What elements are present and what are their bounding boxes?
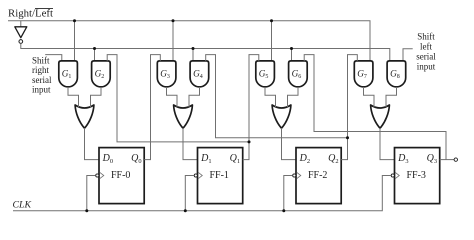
flip-flop FF-1 bbox=[194, 148, 243, 204]
wire CLK line bbox=[13, 176, 391, 211]
flip-flop FF-3 bbox=[391, 148, 440, 204]
or gate stage 0 bbox=[75, 105, 94, 128]
or gate stage 2 bbox=[272, 105, 291, 128]
wire G8 output to OR bbox=[386, 87, 397, 107]
svg-text:Right/Left: Right/Left bbox=[8, 7, 53, 19]
svg-text:FF-1: FF-1 bbox=[209, 170, 228, 181]
svg-text:FF-2: FF-2 bbox=[308, 170, 327, 181]
wire OR output to D0 bbox=[85, 128, 100, 160]
wire inverted drop to G4 bbox=[192, 49, 194, 61]
wire clock riser FF-2 bbox=[284, 176, 293, 211]
and gate G3 bbox=[157, 61, 176, 87]
wire shift right serial input to G1 bbox=[45, 55, 62, 61]
wire G4 channel to Q2 bbox=[206, 55, 348, 138]
wire inverted control line (second) bbox=[21, 43, 390, 61]
junction Q2 riser feedback bbox=[346, 136, 349, 139]
junction on top line stage 1 bbox=[172, 19, 175, 22]
wire inverted drop to G2 bbox=[94, 49, 96, 61]
wire Right/Left control line (top) bbox=[8, 21, 370, 61]
label Right/Left bbox=[8, 7, 53, 19]
svg-text:FF-0: FF-0 bbox=[111, 170, 130, 181]
wire G4 output to OR bbox=[189, 87, 200, 107]
wire shift left serial input to G8 bbox=[403, 49, 413, 61]
wire Q2 riser to G7 bbox=[341, 55, 357, 160]
wire G2 output to OR bbox=[91, 87, 102, 107]
or gate stage 3 bbox=[371, 105, 390, 128]
junction Q1 riser feedback bbox=[248, 140, 251, 143]
junction on top line stage 0 bbox=[73, 19, 76, 22]
wire G5 output to OR bbox=[265, 87, 276, 107]
wire G2 channel to Q1 bbox=[107, 55, 249, 142]
wire G1 output to OR bbox=[68, 87, 79, 107]
wire G7 output to OR bbox=[364, 87, 375, 107]
wire control drop to G1 bbox=[74, 21, 76, 61]
flip-flop FF-2 bbox=[293, 148, 342, 204]
wire inverted drop to G6 bbox=[291, 49, 293, 61]
wire G3 output to OR bbox=[167, 87, 178, 107]
wire Q0 to G3 bbox=[144, 55, 160, 160]
wire OR output to D1 bbox=[183, 128, 198, 160]
output terminal Q3 bbox=[454, 158, 457, 161]
and gate G5 bbox=[256, 61, 275, 87]
and gate G2 bbox=[92, 61, 111, 87]
wire OR output to D3 bbox=[380, 128, 395, 160]
junction on top line stage 2 bbox=[270, 19, 273, 22]
wire G6 output to OR bbox=[288, 87, 299, 107]
and gate G8 bbox=[387, 61, 406, 87]
and gate G4 bbox=[190, 61, 209, 87]
and gate G7 bbox=[354, 61, 373, 87]
wire control drop to G3 bbox=[172, 21, 174, 61]
wire G6 channel to Q3 bbox=[304, 55, 446, 160]
and gate G6 bbox=[289, 61, 308, 87]
svg-text:CLK: CLK bbox=[13, 199, 32, 210]
junction CLK line FF-2 bbox=[282, 209, 285, 212]
wire OR output to D2 bbox=[282, 128, 297, 160]
svg-text:Shiftrightserialinput: Shiftrightserialinput bbox=[32, 56, 52, 95]
junction on inverted line stage 2 bbox=[290, 47, 293, 50]
junction CLK line FF-0 bbox=[85, 209, 88, 212]
junction on inverted line stage 0 bbox=[93, 47, 96, 50]
inverter (Right/Left complement) bbox=[15, 27, 27, 44]
svg-text:FF-3: FF-3 bbox=[406, 170, 425, 181]
wire control drop to G5 bbox=[271, 21, 273, 61]
junction CLK line FF-1 bbox=[184, 209, 187, 212]
junction on inverted line stage 1 bbox=[192, 47, 195, 50]
wire Q1 riser to G5 bbox=[243, 55, 259, 160]
wire inverter input stem bbox=[20, 21, 22, 27]
flip-flop FF-0 bbox=[96, 148, 144, 204]
wire Q3 output bbox=[440, 159, 455, 161]
and gate G1 bbox=[59, 61, 78, 87]
wire clock riser FF-0 bbox=[87, 176, 96, 211]
svg-text:Shiftleftserialinput: Shiftleftserialinput bbox=[416, 32, 436, 72]
wire clock riser FF-1 bbox=[185, 176, 194, 211]
or gate stage 1 bbox=[174, 105, 193, 128]
